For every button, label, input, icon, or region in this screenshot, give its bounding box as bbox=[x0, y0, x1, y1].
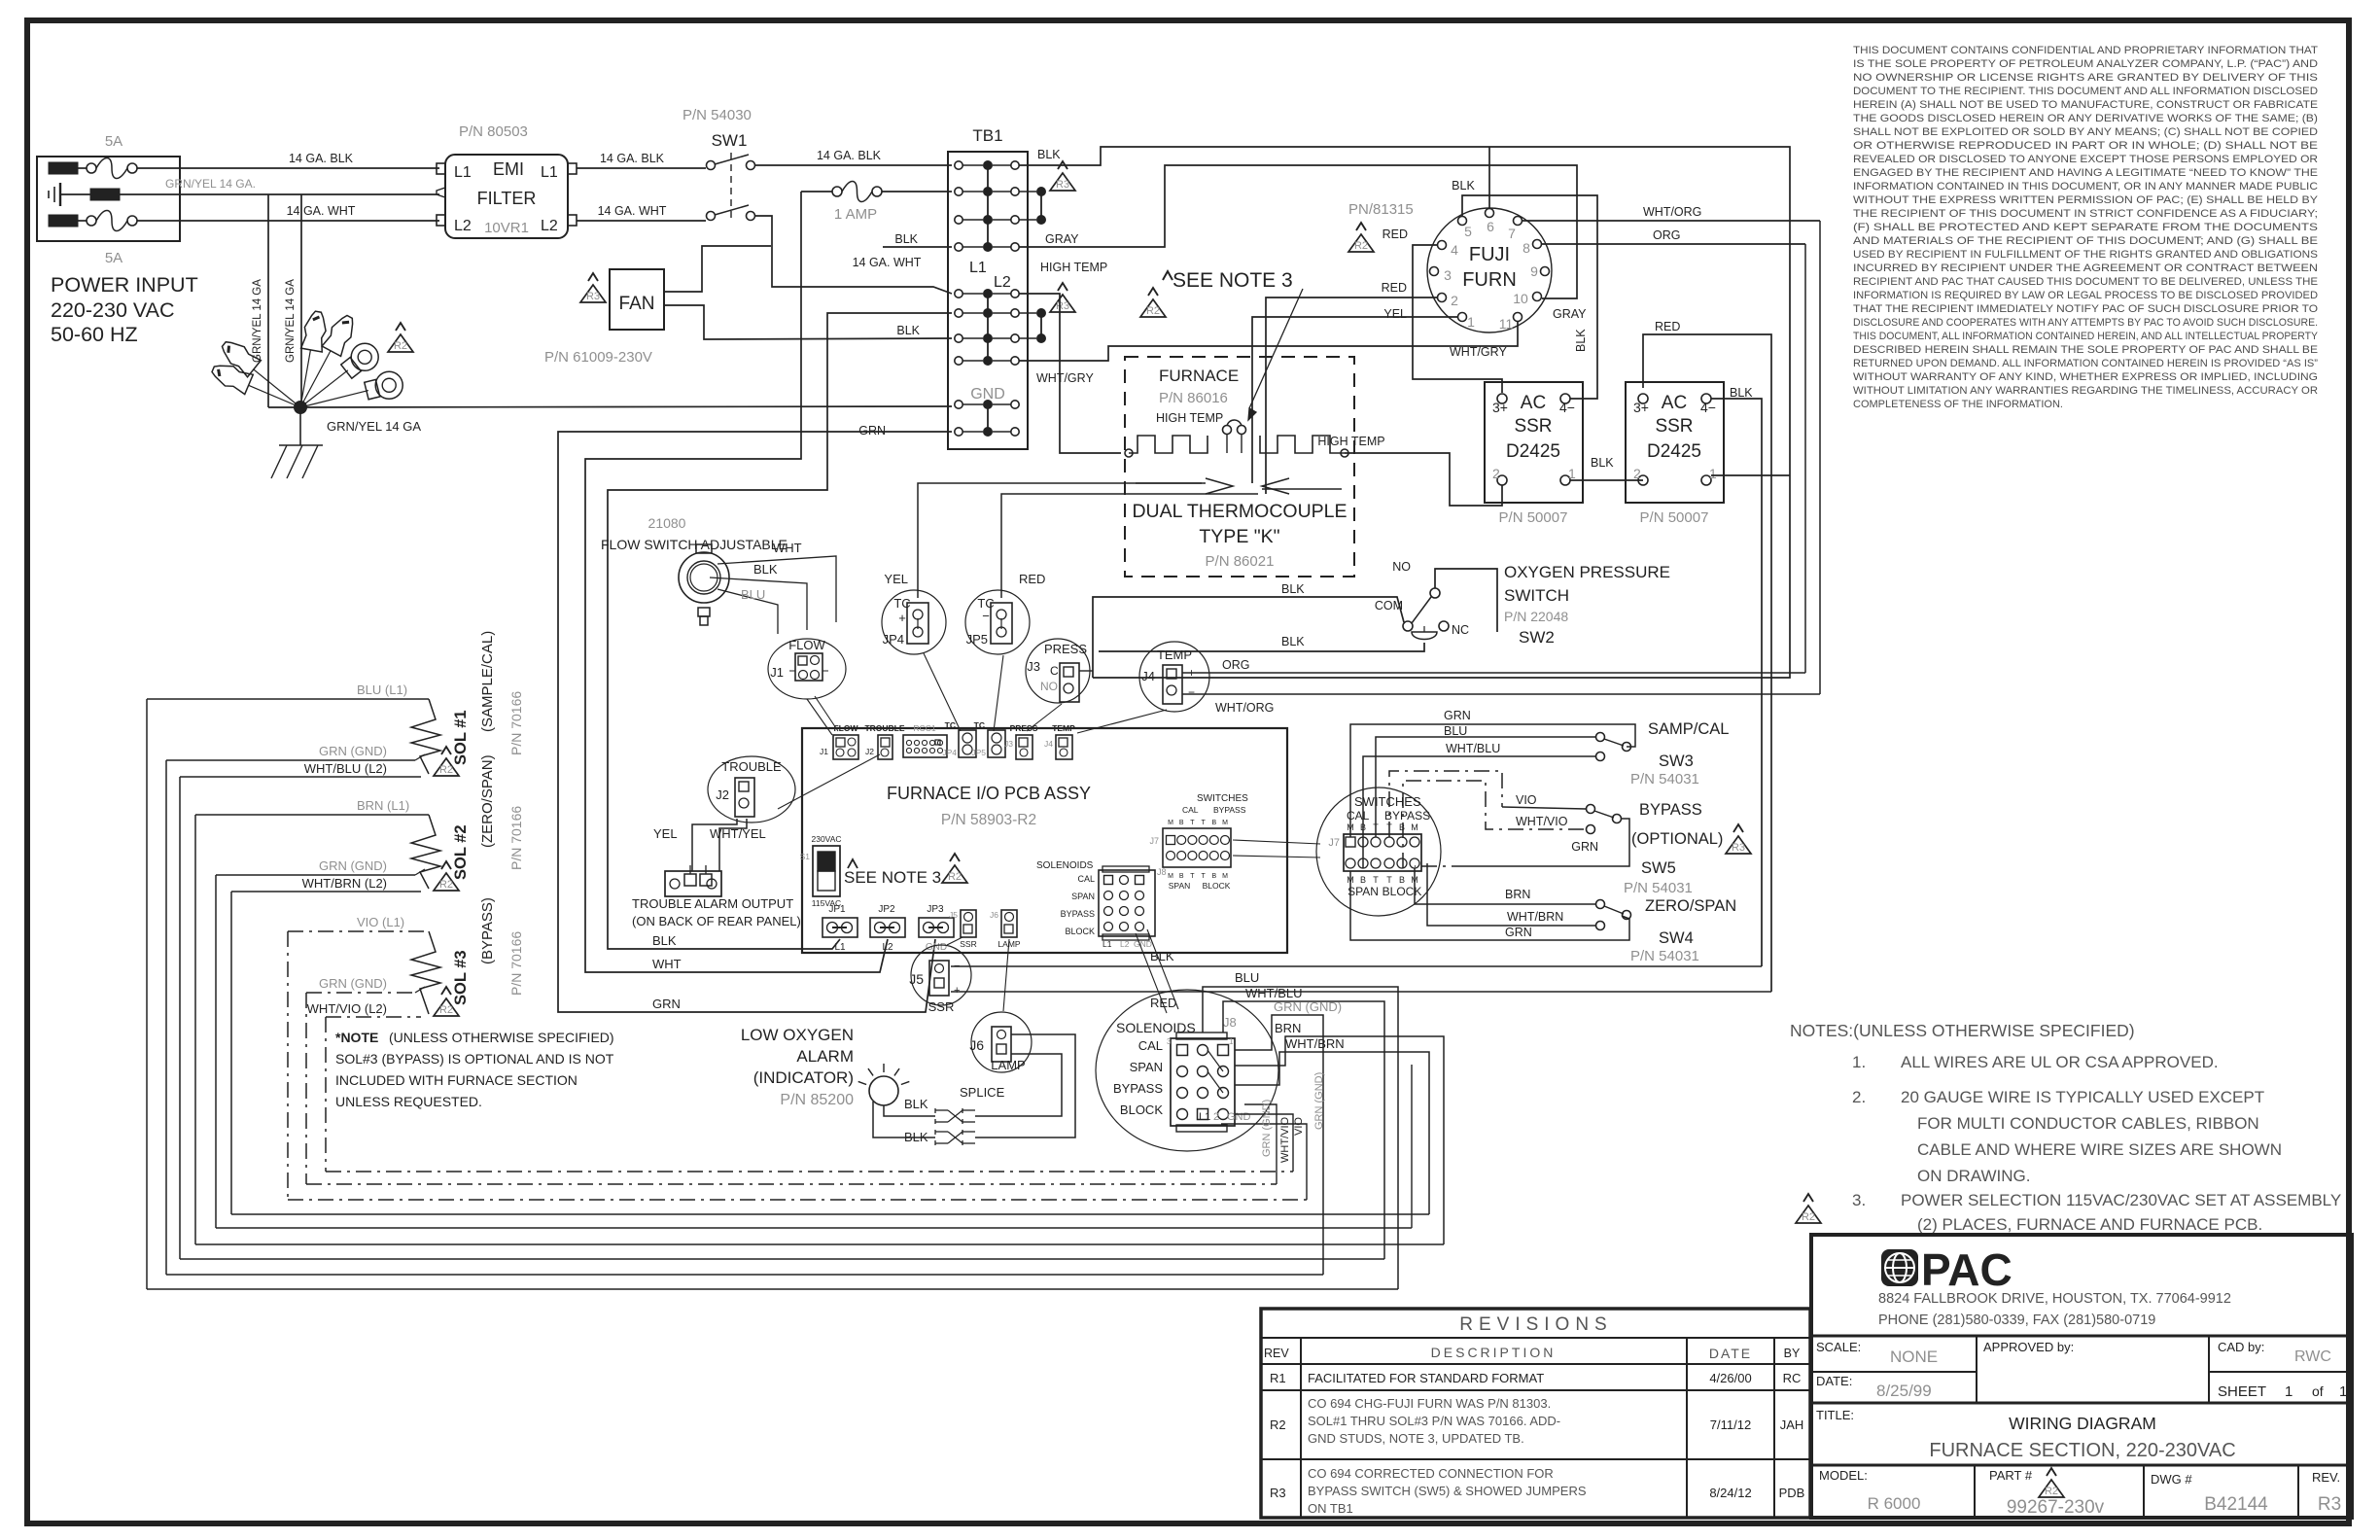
leader J3 to PCB bbox=[1027, 704, 1062, 731]
svg-text:JP5: JP5 bbox=[966, 632, 988, 647]
svg-text:ALARM: ALARM bbox=[796, 1047, 854, 1066]
svg-text:JP2: JP2 bbox=[878, 904, 895, 915]
svg-text:SOLENOIDS: SOLENOIDS bbox=[1036, 860, 1094, 871]
wire RED from J5 bbox=[951, 991, 1771, 993]
svg-text:2: 2 bbox=[1451, 293, 1458, 308]
svg-text:NO: NO bbox=[1392, 560, 1411, 574]
svg-text:(OPTIONAL): (OPTIONAL) bbox=[1631, 830, 1723, 848]
wire YEL to TC+ bbox=[917, 560, 919, 598]
svg-text:B: B bbox=[1211, 873, 1216, 880]
svg-text:INCLUDED WITH FURNACE SECTION: INCLUDED WITH FURNACE SECTION bbox=[335, 1072, 577, 1088]
svg-text:CAL: CAL bbox=[1077, 874, 1095, 884]
svg-text:*NOTE: *NOTE bbox=[335, 1030, 378, 1045]
svg-text:R3: R3 bbox=[1270, 1486, 1286, 1500]
svg-text:WHT/VIO: WHT/VIO bbox=[1516, 815, 1568, 828]
svg-text:WHT/VIO: WHT/VIO bbox=[1279, 1117, 1291, 1163]
svg-text:FURN: FURN bbox=[1462, 269, 1517, 291]
svg-text:DESCRIBED HEREIN SHALL REMAIN: DESCRIBED HEREIN SHALL REMAIN THE SOLE P… bbox=[1853, 344, 2318, 356]
wire RED fuji pin2 to thermocouple bbox=[1266, 297, 1437, 494]
svg-text:SHEET: SHEET bbox=[2218, 1383, 2266, 1400]
svg-text:8/24/12: 8/24/12 bbox=[1709, 1486, 1751, 1500]
svg-text:6: 6 bbox=[1487, 219, 1494, 234]
TEMP J4 detail circle bbox=[1139, 642, 1209, 712]
solenoid SOL #1 wires bbox=[147, 698, 429, 700]
PCB connector J5 SSR bbox=[961, 910, 976, 937]
svg-text:B: B bbox=[1399, 875, 1405, 885]
svg-text:THAT THE RECIPIENT IMMEDIATELY: THAT THE RECIPIENT IMMEDIATELY NOTIFY PA… bbox=[1853, 303, 2318, 315]
arrow to thermostat bbox=[1249, 289, 1303, 408]
svg-text:10VR1: 10VR1 bbox=[484, 220, 529, 236]
svg-text:B42144: B42144 bbox=[2204, 1494, 2268, 1515]
svg-text:50-60 HZ: 50-60 HZ bbox=[51, 323, 138, 346]
svg-text:WHT/YEL: WHT/YEL bbox=[710, 826, 766, 841]
svg-text:R1: R1 bbox=[1270, 1371, 1286, 1385]
svg-text:DATE: DATE bbox=[1709, 1346, 1752, 1361]
wires to SW4 bbox=[1415, 868, 1595, 904]
svg-text:SWITCHES: SWITCHES bbox=[1354, 794, 1421, 809]
svg-text:WITHOUT WARRANTY OF ANY KIND,: WITHOUT WARRANTY OF ANY KIND, WHETHER EX… bbox=[1853, 371, 2318, 383]
wire BLK SSR2 pin1 tie bbox=[1711, 474, 1790, 476]
svg-text:1.: 1. bbox=[1852, 1053, 1866, 1071]
svg-text:2.: 2. bbox=[1852, 1088, 1866, 1106]
svg-text:TITLE:: TITLE: bbox=[1816, 1408, 1854, 1422]
svg-text:CAL: CAL bbox=[1182, 805, 1199, 815]
svg-text:MODEL:: MODEL: bbox=[1819, 1468, 1868, 1483]
svg-text:3.: 3. bbox=[1852, 1191, 1866, 1209]
svg-text:B: B bbox=[1179, 873, 1184, 880]
svg-text:J1: J1 bbox=[770, 665, 784, 680]
bottom bus wires bbox=[288, 1199, 1307, 1201]
svg-text:FURNACE SECTION, 220-230VAC: FURNACE SECTION, 220-230VAC bbox=[1929, 1440, 2235, 1461]
svg-text:R3: R3 bbox=[1732, 842, 1745, 854]
svg-text:M: M bbox=[1168, 873, 1173, 880]
svg-text:POWER SELECTION 115VAC/230VAC: POWER SELECTION 115VAC/230VAC SET AT ASS… bbox=[1901, 1191, 2341, 1209]
svg-text:1: 1 bbox=[2285, 1383, 2292, 1400]
svg-text:JP3: JP3 bbox=[927, 904, 944, 915]
svg-text:SPAN: SPAN bbox=[1347, 885, 1379, 898]
leader J6 detail to PCB J6 bbox=[1003, 939, 1009, 1011]
wire BLK TB1 row6 to PCB JP1 bbox=[608, 313, 952, 949]
trouble alarm wires bbox=[692, 819, 737, 871]
FAN bbox=[610, 269, 664, 330]
svg-text:P/N 54030: P/N 54030 bbox=[682, 107, 752, 123]
svg-text:R 6000: R 6000 bbox=[1868, 1494, 1921, 1513]
wire YEL fuji pin1 to thermocouple bbox=[1252, 317, 1457, 483]
svg-text:WHT/BRN: WHT/BRN bbox=[1507, 910, 1563, 924]
svg-text:+: + bbox=[898, 611, 906, 625]
svg-text:SW1: SW1 bbox=[712, 131, 748, 150]
revision triangle R2 note 3 bbox=[1803, 1194, 1813, 1202]
svg-text:CO 694 CORRECTED CONNECTION FO: CO 694 CORRECTED CONNECTION FOR bbox=[1308, 1466, 1554, 1481]
svg-text:4−: 4− bbox=[1700, 400, 1716, 415]
svg-text:GRN: GRN bbox=[1505, 926, 1532, 939]
svg-text:WHT/GRY: WHT/GRY bbox=[1036, 371, 1094, 385]
svg-text:INCURRED BY RECIPIENT UNDER TH: INCURRED BY RECIPIENT UNDER THE AGREEMEN… bbox=[1853, 262, 2318, 274]
svg-text:BLK: BLK bbox=[894, 232, 918, 246]
svg-text:P/N 50007: P/N 50007 bbox=[1499, 509, 1568, 526]
switch SW4 ZERO/SPAN bbox=[1596, 900, 1605, 909]
svg-text:M: M bbox=[1168, 820, 1173, 826]
wire RED SSR2 pin3 to J5 loop bbox=[1643, 334, 1771, 992]
svg-text:D2425: D2425 bbox=[1647, 441, 1701, 462]
svg-text:L1: L1 bbox=[834, 942, 846, 953]
svg-text:REVEALED OR DISCLOSED TO ANYON: REVEALED OR DISCLOSED TO ANYONE EXCEPT T… bbox=[1853, 154, 2318, 165]
svg-text:BLOCK: BLOCK bbox=[1203, 881, 1231, 891]
svg-text:5A: 5A bbox=[105, 250, 122, 266]
svg-text:ON TB1: ON TB1 bbox=[1308, 1501, 1353, 1516]
alarm wires + splices bbox=[884, 1105, 935, 1116]
svg-text:2: 2 bbox=[1213, 1111, 1219, 1123]
svg-text:5A: 5A bbox=[105, 133, 122, 150]
svg-text:SEE NOTE 3: SEE NOTE 3 bbox=[844, 868, 941, 887]
svg-text:P/N 85200: P/N 85200 bbox=[780, 1092, 854, 1108]
svg-text:of: of bbox=[2312, 1383, 2324, 1399]
svg-text:(F) SHALL BE PROTECTED AND KEP: (F) SHALL BE PROTECTED AND KEPT SEPARATE… bbox=[1853, 222, 2318, 233]
svg-text:CAD by:: CAD by: bbox=[2218, 1340, 2264, 1354]
SOLENOIDS J8 detail circle bbox=[1096, 990, 1278, 1151]
svg-text:BLK: BLK bbox=[1150, 949, 1174, 963]
svg-text:REV: REV bbox=[1264, 1347, 1289, 1360]
svg-text:PDB: PDB bbox=[1779, 1486, 1805, 1500]
svg-text:P/N 86021: P/N 86021 bbox=[1206, 553, 1275, 570]
wire GRAY TB1 row4 to fuji pin10 bbox=[1019, 165, 1577, 298]
svg-text:BLU: BLU bbox=[1235, 970, 1259, 985]
svg-text:L1: L1 bbox=[541, 164, 558, 181]
svg-text:P/N 54031: P/N 54031 bbox=[1630, 948, 1699, 964]
svg-text:FURNACE: FURNACE bbox=[1159, 367, 1239, 385]
svg-text:WHT/GRY: WHT/GRY bbox=[1450, 345, 1507, 359]
svg-text:WIRING DIAGRAM: WIRING DIAGRAM bbox=[2009, 1414, 2156, 1433]
svg-text:HIGH TEMP: HIGH TEMP bbox=[1156, 411, 1223, 425]
svg-text:ZERO/SPAN: ZERO/SPAN bbox=[1645, 897, 1736, 915]
svg-text:INFORMATION IS REQUIRED BY LAW: INFORMATION IS REQUIRED BY LAW OR LEGAL … bbox=[1853, 290, 2318, 301]
svg-text:14 GA. WHT: 14 GA. WHT bbox=[598, 204, 667, 218]
power ground terminal bbox=[90, 189, 120, 200]
svg-text:WHT/BRN: WHT/BRN bbox=[1285, 1036, 1345, 1051]
svg-text:J6: J6 bbox=[990, 910, 998, 920]
svg-text:FILTER: FILTER bbox=[477, 189, 537, 208]
svg-text:BYPASS: BYPASS bbox=[1384, 809, 1430, 822]
svg-text:−: − bbox=[982, 609, 990, 623]
svg-text:14 GA. WHT: 14 GA. WHT bbox=[287, 204, 356, 218]
svg-text:J7: J7 bbox=[1149, 836, 1159, 846]
svg-text:SPAN: SPAN bbox=[1130, 1060, 1163, 1074]
svg-text:7/11/12: 7/11/12 bbox=[1710, 1417, 1751, 1432]
svg-text:PRESS: PRESS bbox=[1010, 723, 1038, 733]
svg-text:GRAY: GRAY bbox=[1045, 232, 1079, 246]
svg-text:R2: R2 bbox=[1354, 240, 1368, 252]
svg-text:SSR: SSR bbox=[960, 939, 976, 949]
solid state relay U3 AC SSR D2425 bbox=[1626, 382, 1724, 503]
svg-text:GRN (GND): GRN (GND) bbox=[319, 744, 387, 758]
svg-text:P/N 70166: P/N 70166 bbox=[508, 691, 524, 755]
svg-text:14 GA. BLK: 14 GA. BLK bbox=[289, 152, 354, 165]
svg-text:AC: AC bbox=[1521, 393, 1546, 413]
svg-text:APPROVED by:: APPROVED by: bbox=[1983, 1340, 2074, 1354]
svg-text:(INDICATOR): (INDICATOR) bbox=[753, 1068, 854, 1087]
TB1 jumper GND group bbox=[987, 404, 989, 432]
svg-text:3+: 3+ bbox=[1633, 400, 1649, 415]
svg-text:ENGAGED BY THE RECIPIENT AND H: ENGAGED BY THE RECIPIENT AND HAVING A LE… bbox=[1853, 167, 2318, 179]
svg-text:(UNLESS OTHERWISE SPECIFIED): (UNLESS OTHERWISE SPECIFIED) bbox=[389, 1030, 614, 1045]
svg-text:SHALL NOT BE EXPLOITED OR SOLD: SHALL NOT BE EXPLOITED OR SOLD BY ANY ME… bbox=[1853, 126, 2318, 138]
svg-text:2: 2 bbox=[1633, 466, 1641, 481]
PCB connector JP5 bbox=[988, 730, 1005, 757]
svg-text:R2: R2 bbox=[394, 340, 407, 352]
leader from FLOW to PCB J1 bbox=[815, 696, 838, 731]
svg-text:14 GA. BLK: 14 GA. BLK bbox=[600, 152, 665, 165]
wire ORG fuji pin8 bbox=[1542, 243, 1805, 245]
svg-text:P/N 58903-R2: P/N 58903-R2 bbox=[941, 812, 1036, 828]
svg-text:BYPASS SWITCH (SW5) & SHOWED J: BYPASS SWITCH (SW5) & SHOWED JUMPERS bbox=[1308, 1484, 1587, 1498]
svg-text:21080: 21080 bbox=[648, 515, 686, 531]
wire 14 GA. BLK SW1 to TB1 bbox=[755, 164, 952, 166]
svg-text:ON DRAWING.: ON DRAWING. bbox=[1917, 1167, 2030, 1185]
svg-text:IS THE SOLE PROPERTY OF PETROL: IS THE SOLE PROPERTY OF PETROLEUM ANALYZ… bbox=[1853, 58, 2318, 70]
svg-text:RED: RED bbox=[1655, 320, 1680, 333]
wire from J6 lamp to splices bbox=[975, 1054, 1062, 1116]
SW2 box outline bbox=[1435, 569, 1497, 632]
svg-text:R2: R2 bbox=[439, 1004, 453, 1016]
svg-text:11: 11 bbox=[1499, 316, 1514, 332]
svg-text:SOL #1: SOL #1 bbox=[452, 710, 470, 765]
svg-text:R3: R3 bbox=[1056, 179, 1069, 191]
svg-text:L2: L2 bbox=[994, 274, 1011, 291]
svg-text:J4: J4 bbox=[1044, 739, 1053, 749]
svg-text:SAMP/CAL: SAMP/CAL bbox=[1648, 720, 1729, 738]
svg-text:3: 3 bbox=[1444, 267, 1452, 283]
solenoid circle wires right bbox=[1203, 987, 1398, 1289]
svg-text:GRN (GND): GRN (GND) bbox=[1274, 999, 1342, 1014]
TB1 jumper L2 group bbox=[987, 294, 989, 361]
svg-text:REVISIONS: REVISIONS bbox=[1459, 1314, 1612, 1335]
svg-text:4: 4 bbox=[1451, 242, 1458, 258]
svg-text:YEL: YEL bbox=[884, 572, 908, 586]
svg-text:S1: S1 bbox=[800, 852, 811, 861]
svg-text:NONE: NONE bbox=[1890, 1347, 1938, 1366]
svg-text:JAH: JAH bbox=[1780, 1417, 1804, 1432]
svg-text:BLK: BLK bbox=[652, 933, 677, 948]
revisions table bbox=[1261, 1309, 1810, 1518]
svg-text:14 GA. WHT: 14 GA. WHT bbox=[853, 256, 922, 269]
title block grid lines bbox=[1811, 1335, 2352, 1338]
wire WHT/BLU to SW3 bbox=[1363, 756, 1595, 868]
svg-text:VIO (L1): VIO (L1) bbox=[357, 915, 404, 929]
svg-text:P/N 54031: P/N 54031 bbox=[1624, 880, 1693, 896]
svg-text:VIO: VIO bbox=[1293, 1117, 1305, 1136]
svg-text:T: T bbox=[1373, 875, 1379, 885]
solenoid SOL #2 wires bbox=[195, 814, 429, 816]
power select switch S1 SEE NOTE 3 bbox=[813, 846, 840, 896]
svg-text:RED: RED bbox=[1150, 996, 1176, 1010]
svg-text:BRN: BRN bbox=[1275, 1021, 1301, 1035]
svg-text:OR OTHERWISE REPRODUCED IN PAR: OR OTHERWISE REPRODUCED IN PART OR IN WH… bbox=[1853, 140, 2318, 152]
wire BLK SSR1 pin1 to SSR2 pin2 bbox=[1570, 479, 1643, 481]
svg-text:TROUBLE: TROUBLE bbox=[864, 723, 904, 733]
PCB connector J2 TROUBLE bbox=[878, 735, 892, 759]
svg-text:SOL#1 THRU SOL#3 P/N WAS 70166: SOL#1 THRU SOL#3 P/N WAS 70166. ADD- bbox=[1308, 1414, 1560, 1428]
leader J5 detail to PCB J5 bbox=[947, 937, 962, 945]
svg-text:JP5: JP5 bbox=[971, 748, 986, 757]
svg-text:1: 1 bbox=[2339, 1383, 2347, 1400]
svg-text:1: 1 bbox=[1229, 1037, 1234, 1046]
svg-text:SPAN: SPAN bbox=[1071, 892, 1095, 901]
svg-text:GND: GND bbox=[970, 386, 1005, 402]
svg-text:1: 1 bbox=[1709, 466, 1717, 481]
svg-text:POWER INPUT: POWER INPUT bbox=[51, 273, 198, 297]
wire BLU to SW3 bbox=[1376, 737, 1595, 837]
svg-text:3: 3 bbox=[1167, 1037, 1172, 1046]
revision triangle R2 near lugs bbox=[396, 323, 405, 331]
svg-text:WITHOUT THE EXPRESS WRITTEN PE: WITHOUT THE EXPRESS WRITTEN PERMISSION O… bbox=[1853, 194, 2319, 206]
solenoid detail jumper lines bbox=[1207, 1050, 1223, 1071]
svg-text:SW4: SW4 bbox=[1659, 929, 1694, 947]
svg-text:PRESS: PRESS bbox=[1044, 642, 1087, 656]
svg-text:J2: J2 bbox=[716, 787, 729, 802]
svg-text:BYPASS: BYPASS bbox=[1061, 909, 1095, 919]
svg-text:GRN: GRN bbox=[652, 997, 681, 1011]
svg-text:RWC: RWC bbox=[2294, 1348, 2331, 1365]
svg-text:L2: L2 bbox=[541, 218, 558, 234]
svg-text:BYPASS: BYPASS bbox=[1113, 1081, 1163, 1096]
svg-text:SW2: SW2 bbox=[1519, 628, 1555, 647]
svg-text:R3: R3 bbox=[2318, 1494, 2341, 1515]
svg-text:WHT/ORG: WHT/ORG bbox=[1643, 205, 1701, 219]
svg-text:RED: RED bbox=[1382, 281, 1407, 295]
svg-text:NO: NO bbox=[1040, 680, 1058, 693]
wire L1 14 GA. BLK to EMI filter bbox=[137, 167, 439, 169]
svg-text:EMI: EMI bbox=[493, 159, 524, 179]
svg-text:M: M bbox=[1222, 820, 1228, 826]
leader J2 trouble to PCB bbox=[778, 754, 880, 809]
svg-text:GRAY: GRAY bbox=[1553, 307, 1587, 321]
svg-text:4−: 4− bbox=[1559, 400, 1575, 415]
svg-text:BY: BY bbox=[1784, 1347, 1801, 1360]
svg-text:GND: GND bbox=[1134, 939, 1152, 949]
svg-text:USED BY RECIPIENT IN FULFILLME: USED BY RECIPIENT IN FULFILLMENT OF THE … bbox=[1853, 249, 2318, 261]
svg-text:1: 1 bbox=[1568, 466, 1576, 481]
svg-text:1 AMP: 1 AMP bbox=[834, 206, 877, 223]
svg-text:WHT/ORG: WHT/ORG bbox=[1215, 701, 1274, 715]
svg-text:DWG #: DWG # bbox=[2151, 1472, 2192, 1487]
svg-text:J7: J7 bbox=[1328, 837, 1340, 849]
svg-text:FLOW SWITCH ADJUSTABLE: FLOW SWITCH ADJUSTABLE bbox=[601, 537, 787, 552]
svg-text:SSR: SSR bbox=[1514, 416, 1552, 437]
svg-text:SOL #3: SOL #3 bbox=[452, 950, 470, 1005]
svg-text:GND STUDS, NOTE 3, UPDATED T: GND STUDS, NOTE 3, UPDATED TB. bbox=[1308, 1431, 1524, 1446]
svg-text:14 GA. BLK: 14 GA. BLK bbox=[817, 149, 882, 162]
wire GRN dashed from SW5 bbox=[1467, 819, 1629, 866]
svg-text:WHT: WHT bbox=[773, 541, 802, 555]
wire 14 GA. WHT SW1 to TB1 L2 bbox=[755, 216, 952, 294]
svg-text:RETURNED UPON DEMAND. ALL INF: RETURNED UPON DEMAND. ALL INFORMATION CO… bbox=[1853, 358, 2318, 369]
svg-text:LAMP: LAMP bbox=[991, 1058, 1025, 1072]
svg-text:PART #: PART # bbox=[1989, 1468, 2033, 1483]
svg-text:T: T bbox=[1201, 820, 1206, 826]
svg-text:L1: L1 bbox=[454, 164, 472, 181]
svg-text:BLK: BLK bbox=[896, 324, 920, 337]
svg-text:RED: RED bbox=[1019, 572, 1045, 586]
wire HIGH TEMP heater to SSR1 pin2 bbox=[1345, 453, 1502, 506]
svg-text:R3: R3 bbox=[1056, 300, 1069, 312]
solid state relay U2 AC SSR D2425 bbox=[1485, 382, 1583, 503]
svg-text:OXYGEN PRESSURE: OXYGEN PRESSURE bbox=[1504, 563, 1670, 581]
svg-text:SPAN: SPAN bbox=[1169, 881, 1191, 891]
leader J8 to solenoid detail circle bbox=[1136, 933, 1167, 1013]
title block frame bbox=[1811, 1235, 2352, 1518]
PCB connector J1 FLOW bbox=[833, 735, 858, 759]
svg-text:TC: TC bbox=[945, 720, 956, 730]
svg-text:9: 9 bbox=[1530, 263, 1538, 279]
svg-text:GRN/YEL 14 GA: GRN/YEL 14 GA bbox=[252, 279, 263, 363]
trouble alarm output connector bbox=[665, 871, 721, 896]
wire HIGH TEMP TB1 row5 to furnace bbox=[1019, 294, 1121, 453]
svg-text:RC: RC bbox=[1783, 1371, 1802, 1385]
svg-text:ORG: ORG bbox=[1653, 228, 1680, 242]
svg-text:BLK: BLK bbox=[904, 1130, 928, 1144]
svg-text:T: T bbox=[1386, 875, 1392, 885]
svg-text:GND: GND bbox=[1227, 1111, 1251, 1123]
svg-text:SCALE:: SCALE: bbox=[1816, 1340, 1861, 1354]
crimp lug terminals bbox=[300, 350, 310, 407]
svg-text:CAL: CAL bbox=[1138, 1038, 1163, 1053]
svg-text:R2: R2 bbox=[2045, 1486, 2058, 1497]
svg-text:R3: R3 bbox=[586, 291, 600, 302]
svg-text:J3: J3 bbox=[1004, 739, 1013, 749]
svg-text:R2: R2 bbox=[439, 879, 453, 891]
svg-text:3+: 3+ bbox=[1492, 400, 1508, 415]
TC- JP5 detail circle bbox=[965, 590, 1030, 654]
wire WHT/GRY fuji pin11 to TB1 row8 bbox=[1019, 321, 1518, 361]
wire BLK SSR2 pin4 to J5 loop bbox=[1711, 399, 1762, 966]
svg-text:HIGH TEMP: HIGH TEMP bbox=[1040, 261, 1107, 274]
svg-text:M: M bbox=[1222, 873, 1228, 880]
TB1 R3 jumper rows 2-3 bbox=[1036, 187, 1046, 196]
svg-text:NO OWNERSHIP OR LICENSE RIGHTS: NO OWNERSHIP OR LICENSE RIGHTS ARE GRANT… bbox=[1853, 72, 2318, 84]
svg-text:WHT/VIO (L2): WHT/VIO (L2) bbox=[307, 1001, 387, 1016]
svg-text:5: 5 bbox=[1464, 224, 1472, 239]
svg-text:220-230 VAC: 220-230 VAC bbox=[51, 298, 175, 322]
svg-text:TB1: TB1 bbox=[972, 126, 1002, 145]
svg-text:JP1: JP1 bbox=[828, 904, 846, 915]
wire BLK from SW2 plunger bbox=[1099, 643, 1424, 651]
svg-text:BYPASS: BYPASS bbox=[1213, 805, 1246, 815]
svg-text:HEREIN (A) SHALL NOT BE USED T: HEREIN (A) SHALL NOT BE USED TO MANUFACT… bbox=[1853, 99, 2318, 111]
svg-text:J8: J8 bbox=[1157, 867, 1167, 877]
svg-text:SWITCHES: SWITCHES bbox=[1197, 793, 1248, 804]
svg-text:FAN: FAN bbox=[619, 294, 655, 314]
svg-text:GRN (GND): GRN (GND) bbox=[1313, 1072, 1325, 1130]
svg-text:SWITCH: SWITCH bbox=[1504, 586, 1569, 605]
svg-text:P/N 86016: P/N 86016 bbox=[1159, 390, 1228, 406]
FLOW J1 connector detail circle bbox=[768, 639, 846, 699]
svg-text:C: C bbox=[1050, 664, 1059, 678]
svg-text:PHONE (281)580-0339, FAX: PHONE (281)580-0339, FAX (281)580-0719 bbox=[1878, 1312, 2155, 1328]
TB1 jumper L1 group bbox=[987, 165, 989, 247]
svg-text:(ON BACK OF REAR PANEL): (ON BACK OF REAR PANEL) bbox=[632, 914, 801, 928]
wire WHT/ORG TEMP right bbox=[1182, 693, 1820, 695]
svg-text:UNLESS REQUESTED.: UNLESS REQUESTED. bbox=[335, 1094, 482, 1109]
solenoid circle wires down bbox=[1244, 1104, 1277, 1184]
wire L2 14 GA. WHT to EMI filter bbox=[137, 220, 439, 222]
svg-text:99267-230v: 99267-230v bbox=[2007, 1497, 2105, 1518]
svg-text:WHT: WHT bbox=[652, 957, 682, 971]
svg-text:GRN: GRN bbox=[1444, 709, 1471, 722]
wire stub BLK TB1 row4 bbox=[883, 246, 952, 248]
svg-text:SW3: SW3 bbox=[1659, 752, 1694, 770]
svg-text:BLK: BLK bbox=[1281, 582, 1305, 596]
wire RED to TC- bbox=[1001, 494, 1258, 598]
